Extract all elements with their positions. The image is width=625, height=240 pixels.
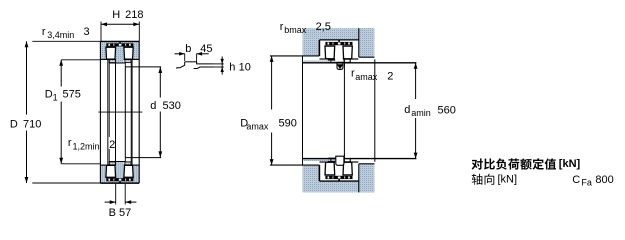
- svg-text:C: C: [572, 174, 580, 186]
- svg-text:710: 710: [23, 118, 41, 130]
- svg-text:r: r: [68, 137, 72, 149]
- svg-text:1: 1: [53, 93, 58, 103]
- svg-text:d: d: [404, 104, 410, 116]
- svg-text:3: 3: [84, 26, 90, 38]
- svg-text:2: 2: [387, 71, 393, 83]
- svg-text:218: 218: [125, 9, 143, 21]
- svg-text:3,4min: 3,4min: [47, 30, 74, 40]
- svg-text:57: 57: [119, 207, 131, 219]
- svg-text:amax: amax: [355, 72, 378, 82]
- svg-text:b: b: [185, 43, 191, 55]
- svg-text:D: D: [10, 118, 18, 130]
- svg-text:B: B: [109, 207, 116, 219]
- svg-text:D: D: [45, 89, 53, 101]
- svg-text:560: 560: [438, 105, 456, 117]
- svg-text:d: d: [150, 100, 156, 112]
- svg-text:10: 10: [239, 61, 251, 73]
- svg-text:amin: amin: [411, 108, 431, 118]
- svg-text:2: 2: [109, 139, 115, 151]
- svg-text:r: r: [42, 26, 46, 38]
- svg-text:amax: amax: [246, 122, 269, 132]
- svg-text:45: 45: [200, 43, 212, 55]
- svg-text:530: 530: [163, 100, 181, 112]
- svg-text:Fa: Fa: [581, 178, 592, 188]
- svg-text:590: 590: [279, 117, 297, 129]
- svg-text:H: H: [112, 9, 120, 21]
- svg-text:bmax: bmax: [284, 25, 307, 35]
- svg-text:[kN]: [kN]: [498, 174, 518, 186]
- svg-text:h: h: [229, 61, 235, 73]
- svg-text:2,5: 2,5: [316, 21, 331, 33]
- svg-text:r: r: [280, 21, 284, 33]
- svg-text:1,2min: 1,2min: [73, 142, 100, 152]
- svg-text:800: 800: [595, 174, 613, 186]
- svg-text:[kN]: [kN]: [559, 158, 581, 170]
- svg-text:575: 575: [63, 89, 81, 101]
